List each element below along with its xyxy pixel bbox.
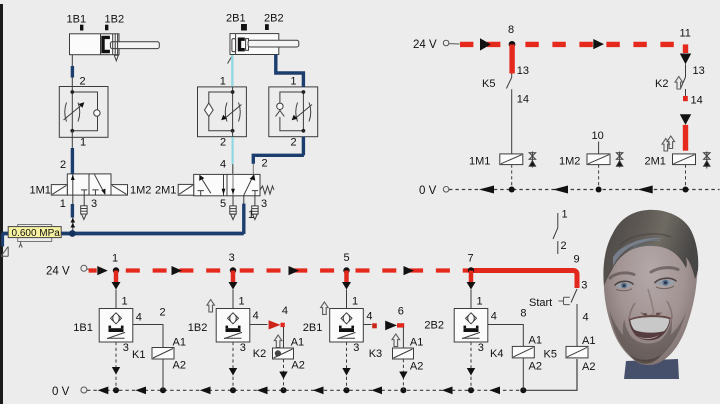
svg-text:2: 2	[262, 158, 268, 170]
svg-text:3: 3	[581, 280, 587, 292]
svg-text:2: 2	[220, 137, 226, 149]
svg-text:4: 4	[136, 312, 142, 324]
svg-text:1: 1	[239, 296, 245, 308]
svg-text:1: 1	[122, 296, 128, 308]
svg-text:9: 9	[574, 254, 580, 266]
svg-text:3: 3	[123, 342, 129, 354]
svg-text:1: 1	[477, 296, 483, 308]
svg-text:0 V: 0 V	[52, 386, 70, 398]
svg-text:1: 1	[248, 209, 254, 221]
svg-text:Start: Start	[529, 297, 552, 309]
svg-text:1: 1	[220, 76, 226, 88]
svg-text:5: 5	[344, 252, 350, 264]
svg-text:2M1: 2M1	[645, 156, 666, 168]
svg-text:2: 2	[160, 307, 166, 319]
svg-text:6: 6	[398, 306, 404, 318]
svg-text:K1: K1	[132, 349, 145, 361]
svg-text:A2: A2	[582, 361, 595, 373]
svg-text:1: 1	[80, 137, 86, 149]
svg-text:2: 2	[291, 137, 297, 149]
svg-text:24 V: 24 V	[413, 39, 437, 51]
svg-text:3: 3	[240, 342, 246, 354]
svg-text:A1: A1	[529, 335, 542, 347]
svg-text:K2: K2	[655, 78, 668, 90]
svg-text:13: 13	[517, 65, 529, 77]
svg-text:3: 3	[353, 342, 359, 354]
svg-text:A1: A1	[291, 337, 304, 349]
svg-text:1B2: 1B2	[188, 322, 208, 334]
svg-text:K3: K3	[369, 348, 382, 360]
svg-text:1: 1	[290, 76, 296, 88]
svg-text:K5: K5	[482, 78, 495, 90]
svg-text:4: 4	[282, 305, 288, 317]
svg-text:K4: K4	[490, 348, 503, 360]
svg-text:2B1: 2B1	[226, 13, 246, 25]
svg-text:0.600 MPa: 0.600 MPa	[12, 228, 61, 239]
svg-text:3: 3	[91, 198, 97, 210]
svg-text:2B2: 2B2	[424, 320, 444, 332]
svg-text:1: 1	[60, 198, 66, 210]
svg-text:4: 4	[583, 312, 589, 324]
svg-text:A1: A1	[173, 337, 186, 349]
svg-text:1B1: 1B1	[67, 14, 87, 26]
svg-text:13: 13	[693, 65, 705, 77]
svg-text:11: 11	[680, 28, 691, 40]
svg-text:1M1: 1M1	[30, 185, 51, 197]
svg-text:A1: A1	[410, 337, 423, 349]
svg-text:14: 14	[691, 95, 703, 107]
svg-text:8: 8	[508, 24, 514, 36]
svg-text:3: 3	[478, 342, 484, 354]
svg-text:1: 1	[562, 209, 568, 221]
svg-text:3: 3	[229, 252, 235, 264]
svg-text:8: 8	[520, 308, 526, 320]
svg-text:K5: K5	[544, 349, 557, 361]
svg-text:A2: A2	[291, 360, 304, 372]
svg-text:4: 4	[491, 311, 497, 323]
svg-text:2: 2	[60, 159, 66, 171]
svg-text:10: 10	[592, 130, 604, 142]
svg-text:14: 14	[517, 94, 529, 106]
svg-text:4: 4	[220, 159, 226, 171]
svg-text:2: 2	[80, 76, 86, 88]
svg-text:1: 1	[112, 253, 118, 265]
svg-text:A1: A1	[582, 335, 595, 347]
svg-text:A2: A2	[410, 361, 423, 373]
svg-text:7: 7	[468, 253, 474, 265]
svg-text:2: 2	[561, 240, 567, 252]
svg-text:A2: A2	[173, 360, 186, 372]
svg-text:1B1: 1B1	[73, 322, 93, 334]
svg-text:1M2: 1M2	[130, 185, 151, 197]
svg-text:0 V: 0 V	[419, 185, 437, 197]
svg-text:1: 1	[352, 296, 358, 308]
svg-text:1M1: 1M1	[469, 156, 490, 168]
svg-text:K2: K2	[253, 348, 266, 360]
svg-text:24 V: 24 V	[46, 266, 70, 278]
svg-text:2B1: 2B1	[303, 322, 323, 334]
svg-text:1B2: 1B2	[105, 14, 125, 26]
svg-text:2M1: 2M1	[155, 185, 176, 197]
svg-text:4: 4	[253, 310, 259, 322]
svg-text:5: 5	[220, 198, 226, 210]
svg-text:3: 3	[261, 198, 267, 210]
svg-text:1M2: 1M2	[559, 156, 580, 168]
svg-text:4: 4	[366, 311, 372, 323]
svg-text:2B2: 2B2	[264, 13, 284, 25]
svg-text:A2: A2	[529, 361, 542, 373]
